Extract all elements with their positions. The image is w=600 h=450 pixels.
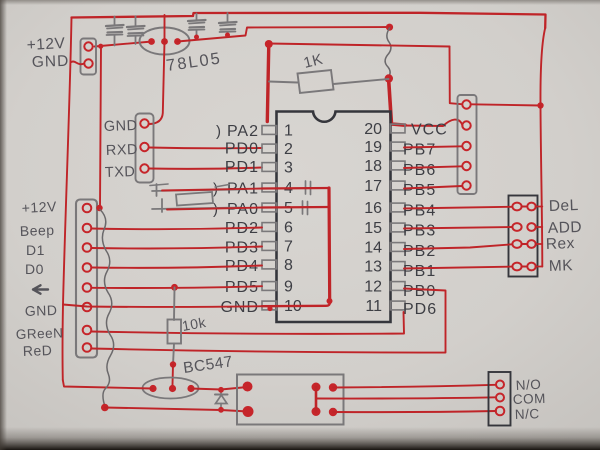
pin 17 stub — [391, 181, 406, 190]
pin J2 RXD — [140, 143, 148, 151]
svg-text:N/C: N/C — [515, 406, 540, 422]
pin J4-1 — [462, 100, 470, 108]
wire PB7 to J4-3 — [404, 146, 462, 147]
svg-text:D1: D1 — [26, 242, 45, 258]
pin 3 stub — [262, 163, 277, 172]
wire J5 DEL to rail — [536, 206, 543, 208]
svg-text:+12V: +12V — [21, 198, 57, 216]
pin 19 stub — [391, 142, 406, 151]
pin J1-2 GND — [84, 59, 92, 67]
capacitor load cap inside IC pin4 row — [305, 181, 307, 194]
junction blob at pin10 exit — [267, 306, 272, 311]
wire X1 top lead — [152, 190, 240, 192]
wire R2 top lead — [173, 288, 176, 321]
junction +12V tap — [98, 44, 103, 49]
pin 2 stub — [262, 144, 277, 153]
regulator U2 78L05 body — [140, 28, 190, 55]
svg-text:18: 18 — [364, 158, 382, 175]
svg-text:16: 16 — [364, 200, 382, 217]
svg-text:PD0: PD0 — [225, 141, 259, 158]
svg-text:GND: GND — [25, 302, 58, 319]
svg-text:11: 11 — [365, 298, 382, 315]
junction R2 on PD5 wire — [171, 284, 178, 291]
pin J3 arrow — [83, 283, 92, 292]
svg-text:1: 1 — [284, 123, 293, 140]
pin J3 RED — [83, 343, 92, 352]
capacitor C4 — [227, 13, 229, 23]
pin J5 MK right — [527, 263, 535, 271]
wire J4 pin1 to right rail — [471, 104, 541, 105]
pin J3 D0 — [83, 263, 92, 272]
pin J4-4 — [462, 162, 470, 170]
label arrow — [33, 285, 48, 293]
wire +12V squiggle (pencil) — [100, 210, 114, 408]
svg-text:ReD: ReD — [23, 342, 53, 359]
wire arrow to PD5 — [92, 286, 263, 288]
svg-text:GND: GND — [32, 53, 70, 71]
crystal X1 body — [176, 192, 213, 206]
pin K1 NO — [329, 383, 337, 391]
svg-text:12: 12 — [364, 279, 382, 296]
pin J1-1 +12V — [84, 42, 92, 50]
pin 12 stub — [391, 282, 406, 291]
pin 18 stub — [391, 161, 406, 170]
junction +12V relay feed — [101, 404, 109, 412]
svg-text:PA0: PA0 — [227, 201, 259, 218]
wire 5V from 78L05 output — [178, 27, 390, 42]
pin J2 TXD — [140, 164, 148, 172]
pin 16 stub — [391, 203, 406, 212]
pin J6 N/C — [496, 407, 505, 416]
pin J6 N/O — [496, 381, 504, 389]
svg-text:COM: COM — [513, 391, 547, 407]
pin 78L05 output — [174, 38, 181, 45]
svg-text:9: 9 — [284, 279, 293, 296]
wire VCC red drop to pin 20 — [389, 78, 406, 126]
pin Q1 collector — [187, 385, 194, 392]
svg-text:17: 17 — [364, 178, 382, 195]
pin 4 stub — [262, 183, 277, 192]
wire J5 MK contact — [522, 266, 528, 268]
diode D2 triangle — [216, 395, 228, 404]
connector J1 power input — [81, 39, 97, 75]
diode D2 cathode bar — [215, 394, 228, 396]
svg-text:DeL: DeL — [549, 197, 580, 215]
pin K1 coil - — [243, 382, 253, 392]
wire PB4 to DEL — [404, 207, 512, 209]
svg-text:2: 2 — [284, 141, 293, 158]
wire GND top bus — [72, 13, 546, 28]
wire J5 ADD to rail — [536, 226, 543, 228]
pin J3 D1 — [83, 243, 92, 252]
junction D2 top — [218, 387, 224, 393]
wire RESET to ISP pin1 — [450, 47, 462, 105]
pin 5 stub — [262, 203, 277, 212]
capacitor C3 — [196, 14, 198, 21]
wire 78L05 GND pin up to GND bus — [164, 15, 166, 42]
wire RESET horizontal — [269, 44, 450, 47]
pin 20 stub — [391, 124, 406, 133]
pin 1 stub — [262, 126, 277, 135]
svg-text:PB6: PB6 — [403, 162, 436, 179]
svg-text:VCC: VCC — [411, 122, 448, 139]
pin K1 coil + — [243, 406, 254, 417]
svg-text:GReeN: GReeN — [16, 325, 64, 342]
wire VCC squiggle (pencil) — [385, 28, 391, 77]
wire PB5 to J4-5 — [404, 186, 462, 189]
relay K1 body — [237, 375, 344, 425]
wire XTAL1 red to pin 5 — [167, 208, 262, 210]
wire red inside IC vertical down — [327, 188, 331, 303]
wire RESET down to pin 1 — [267, 44, 269, 122]
svg-text:ADD: ADD — [548, 219, 583, 237]
pin J4-2 — [462, 121, 470, 129]
pin J2 GND — [140, 119, 148, 127]
wire XTAL2 red to pin 4 — [162, 189, 262, 191]
capacitor load cap inside IC pin5 row — [302, 201, 304, 214]
op IC U1 ATtiny2313 body — [277, 112, 391, 323]
wire GND rail to IC pin 10 — [63, 305, 262, 307]
pin 7 stub — [262, 242, 277, 251]
svg-text:PB7: PB7 — [403, 142, 436, 159]
pin J3 GND — [83, 303, 92, 312]
wire relay COM out — [317, 397, 496, 398]
connector J2 serial — [136, 114, 154, 183]
pin K1 NC — [329, 408, 337, 416]
svg-text:): ) — [216, 123, 222, 140]
pin 6 stub — [262, 223, 277, 232]
wire D2 bottom lead — [220, 404, 222, 411]
svg-text:PA2: PA2 — [227, 123, 259, 140]
pin 78L05 ground — [161, 38, 168, 45]
connector J4 ISP header — [458, 95, 477, 194]
wire RXD to PD0 — [149, 147, 262, 150]
pin J5 MK left — [512, 263, 521, 271]
pin J5 DEL left — [512, 203, 521, 211]
pin 11 stub — [391, 301, 406, 310]
wire J5 MK to rail — [536, 266, 543, 268]
svg-text:PB0: PB0 — [403, 283, 436, 300]
connector J5 buttons — [509, 196, 538, 277]
pin 10 stub — [262, 301, 277, 310]
svg-text:13: 13 — [364, 259, 382, 276]
wire R1 left lead — [269, 82, 298, 83]
wire GREEN to PD6 — [92, 312, 405, 334]
junction 5V at VCC squiggle — [386, 24, 393, 31]
pin Q1 base — [169, 385, 176, 392]
wire relay NO out — [333, 385, 496, 388]
svg-text:TXD: TXD — [105, 164, 136, 181]
svg-text:D0: D0 — [25, 261, 44, 277]
pin 13 stub — [391, 262, 406, 271]
pin J3 +12V — [83, 204, 92, 213]
svg-text:Rex: Rex — [546, 235, 576, 253]
svg-text:Beep: Beep — [20, 222, 55, 239]
transistor Q1 BC547 body — [143, 378, 199, 399]
svg-text:PD1: PD1 — [225, 159, 259, 176]
wire D1 to PD3 — [92, 247, 263, 249]
wire red inside IC pin5 joins vertical — [262, 206, 330, 209]
wire RED to PB0 — [92, 289, 446, 353]
capacitor X1 load cap marks — [156, 184, 158, 196]
wire GND hook from J1-2 to rail — [72, 61, 85, 64]
wire X1 bottom lead — [152, 208, 240, 210]
svg-text:14: 14 — [364, 240, 382, 257]
svg-text:PB1: PB1 — [403, 263, 436, 280]
wire 78L05 GND pin down to J2 GND — [150, 42, 165, 125]
pin Q1 emitter — [149, 385, 156, 392]
junction rail at J4 — [537, 102, 543, 108]
svg-text:GND: GND — [104, 118, 138, 135]
svg-text:PB4: PB4 — [403, 203, 436, 220]
pin J5 ADD right — [527, 223, 535, 231]
wire PB1 to MK — [404, 267, 512, 269]
junction J3 +12V feed — [96, 205, 102, 211]
pin 15 stub — [391, 223, 406, 232]
wire relay NC out — [333, 411, 496, 412]
wire J5 DEL contact — [522, 206, 528, 208]
wire Beep to PD2 — [92, 228, 263, 230]
svg-text:20: 20 — [364, 121, 382, 138]
wire K1 common bar — [315, 387, 318, 412]
wire right rail — [540, 28, 545, 267]
wire GND left rail — [63, 18, 72, 381]
wire PB3 to ADD — [404, 227, 512, 229]
svg-text:PB5: PB5 — [403, 182, 436, 199]
svg-text:6: 6 — [284, 220, 293, 237]
wire emitter to GND rail — [63, 380, 153, 389]
svg-text:MK: MK — [549, 257, 574, 275]
svg-text:PD6: PD6 — [403, 301, 437, 318]
wire red inside IC pin4 to vertical — [262, 187, 329, 190]
svg-text:5: 5 — [284, 200, 293, 217]
junction R2 to base — [170, 361, 176, 367]
svg-text:7: 7 — [284, 239, 293, 256]
wire +12V down-feed to J3 pin1 — [100, 46, 101, 208]
svg-text:8: 8 — [284, 257, 293, 274]
wire PB2 to REX — [404, 244, 512, 249]
pin J5 DEL right — [527, 203, 535, 211]
wire J5 REX contact — [522, 243, 528, 245]
pin J5 REX left — [512, 240, 521, 248]
pin 14 stub — [391, 243, 406, 252]
pin J5 REX right — [527, 240, 535, 248]
junction C4 on 5V wire — [225, 33, 230, 38]
pin 78L05 input — [148, 38, 155, 45]
capacitor C1 — [114, 17, 116, 26]
wire VCC strikethrough to ISP pin 2 hook — [404, 120, 463, 126]
wire D2 top lead — [220, 390, 222, 395]
wire J5 REX to rail — [536, 243, 543, 245]
svg-text:PB3: PB3 — [403, 223, 436, 240]
resistor R1 1K body — [298, 70, 334, 93]
wire +12V to diode and coil — [105, 408, 248, 412]
resistor R2 10k body — [168, 320, 182, 344]
svg-text:15: 15 — [364, 220, 382, 237]
wire red inside IC corner to pin 10 — [262, 303, 330, 307]
wire +12V from J1 to 78L05 input — [95, 42, 153, 47]
capacitor C2 — [135, 16, 137, 26]
connector J3 main I/O — [76, 200, 97, 358]
pin J5 ADD left — [512, 223, 521, 231]
junction D2 bottom — [218, 407, 224, 413]
pin J4-3 — [462, 142, 470, 150]
wire PB6 to J4-4 — [404, 166, 462, 168]
svg-text:3: 3 — [284, 160, 293, 177]
pin J6 COM — [496, 394, 504, 402]
wire R2 bottom lead — [173, 344, 174, 366]
wire base lead — [172, 365, 175, 386]
wire collector to relay coil — [191, 387, 248, 390]
pin K1 common — [312, 383, 321, 392]
pin J3 Beep — [83, 224, 92, 233]
pin J4-5 — [462, 181, 470, 189]
pin 8 stub — [262, 260, 277, 269]
svg-text:RXD: RXD — [106, 142, 139, 159]
svg-text:PB2: PB2 — [403, 243, 436, 260]
svg-text:19: 19 — [364, 139, 382, 156]
pin 9 stub — [262, 282, 277, 291]
wire D0 to PD4 — [92, 266, 263, 268]
wire R1 right lead — [334, 79, 389, 84]
junction C3 on 5V wire — [194, 35, 199, 40]
connector J6 relay output — [489, 372, 511, 426]
wire TXD to PD1 — [149, 168, 262, 169]
svg-text:+12V: +12V — [26, 35, 66, 54]
pin K1 common2 — [312, 407, 321, 416]
pin J3 GREEN — [83, 326, 92, 335]
